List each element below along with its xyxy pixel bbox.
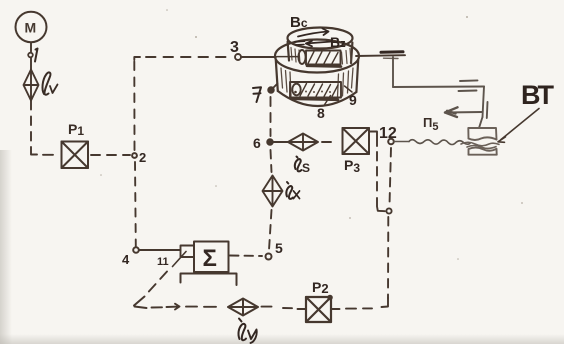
label Bc: [290, 14, 308, 31]
svg-text:2: 2: [139, 150, 146, 165]
label 8: [317, 96, 331, 122]
paper specks: [100, 9, 523, 260]
wire through drum: [277, 56, 299, 58]
node 1: [28, 49, 37, 62]
label 9: [345, 86, 358, 108]
node 5: [266, 240, 284, 260]
label ix: [286, 182, 299, 199]
wire node 1 to iv: [30, 58, 32, 69]
gyro drum body: [275, 40, 359, 107]
wire node 2 up to corner (dashed): [133, 60, 135, 150]
wire is to P3 (dashed): [322, 141, 331, 143]
wire node 4 to summator: [139, 249, 181, 251]
wire node 7 to node 6 (dashed): [270, 97, 272, 136]
summator bracket: [181, 274, 237, 286]
label VT: [498, 80, 554, 142]
svg-text:Вс: Вс: [290, 14, 308, 31]
transducer iv: [24, 70, 39, 101]
wire right to piston: [393, 86, 484, 89]
wire corner to node 3 (dashed): [134, 57, 233, 60]
wire motor to node 1: [30, 43, 32, 52]
converter P1: [62, 142, 89, 169]
wire node 2 to node 4 (dashed): [134, 162, 137, 246]
transducer ix: [263, 176, 283, 207]
label is: [295, 157, 310, 176]
wire corner to P1 (dashed): [31, 147, 53, 155]
diagonal dashed wire to arrow: [147, 272, 167, 294]
svg-text:P2: P2: [312, 279, 329, 296]
arrow Bz: [295, 41, 332, 47]
converter P3: [343, 128, 370, 154]
summator input notch 11: [157, 246, 194, 269]
VT transformer bottom plate: [469, 148, 497, 155]
node 7: [253, 84, 278, 103]
svg-text:8: 8: [317, 105, 325, 121]
arrowhead bottom left: [134, 297, 147, 309]
wire into VT: [479, 117, 483, 128]
drum lower band hatching: [281, 68, 353, 97]
wire piston down: [483, 87, 485, 118]
label iv: [43, 72, 58, 94]
svg-text:Σ: Σ: [203, 245, 217, 272]
transducer is: [288, 134, 318, 151]
wire P3 to node 12 net: [369, 132, 377, 147]
wire iv to corner (dashed): [30, 101, 32, 147]
node 12: [379, 125, 397, 144]
wire P3 down (dashed): [376, 152, 378, 196]
wire drum to bar: [356, 54, 405, 57]
arrow P5: [445, 107, 482, 117]
wire summator to node 5 (dashed): [230, 255, 262, 258]
converter P2: [306, 295, 333, 322]
transducer iy: [228, 299, 258, 316]
drum top cylinder: [288, 28, 353, 64]
svg-text:11: 11: [157, 256, 169, 268]
node 4: [122, 247, 139, 267]
wire node 6 to ix (dashed): [271, 150, 272, 172]
drum upper window with theta: [298, 50, 341, 67]
wire node 6 to is: [273, 141, 288, 143]
svg-text:S: S: [302, 161, 310, 175]
svg-text:4: 4: [122, 252, 130, 267]
node 6: [253, 135, 273, 151]
svg-text:12: 12: [379, 125, 397, 142]
svg-text:ВТ: ВТ: [521, 80, 554, 110]
summator U11: [194, 242, 229, 273]
dashed run to iy with arrow: [152, 304, 217, 310]
svg-text:M: M: [25, 20, 37, 36]
wire ix to node 5 (dashed): [269, 210, 272, 250]
wire P2 right (dashed): [331, 307, 372, 310]
wire iy to P2 (dashed): [262, 307, 307, 309]
piston plates: [459, 80, 478, 91]
wire node 12 down (dashed): [390, 148, 392, 205]
wire node 3 to drum: [241, 56, 276, 58]
motor M1: [16, 12, 47, 42]
drum lower window 8: [290, 82, 341, 100]
node 3: [230, 39, 241, 60]
svg-text:9: 9: [349, 92, 357, 108]
junction node: [386, 208, 391, 213]
drum top cylinder hatching: [291, 48, 351, 65]
wire junction down (dashed): [387, 217, 389, 298]
label iy: [238, 319, 256, 344]
svg-text:6: 6: [253, 135, 261, 151]
wire P1 to node 2 (dashed): [91, 154, 130, 156]
svg-text:P1: P1: [68, 121, 84, 138]
corner junction to P2 run: [382, 298, 389, 307]
VT transformer top plate: [468, 128, 496, 140]
VT air gap squiggles: [461, 142, 499, 148]
svg-text:3: 3: [230, 39, 239, 56]
node 2: [132, 150, 146, 165]
corner to junction: [377, 198, 385, 211]
wire node 12 to VT (squiggle): [394, 140, 470, 145]
arrow Bc: [298, 29, 329, 37]
piston rod lines: [486, 102, 489, 118]
wire bar down: [392, 57, 394, 87]
svg-text:5: 5: [275, 240, 283, 256]
junction bar: [381, 52, 403, 59]
